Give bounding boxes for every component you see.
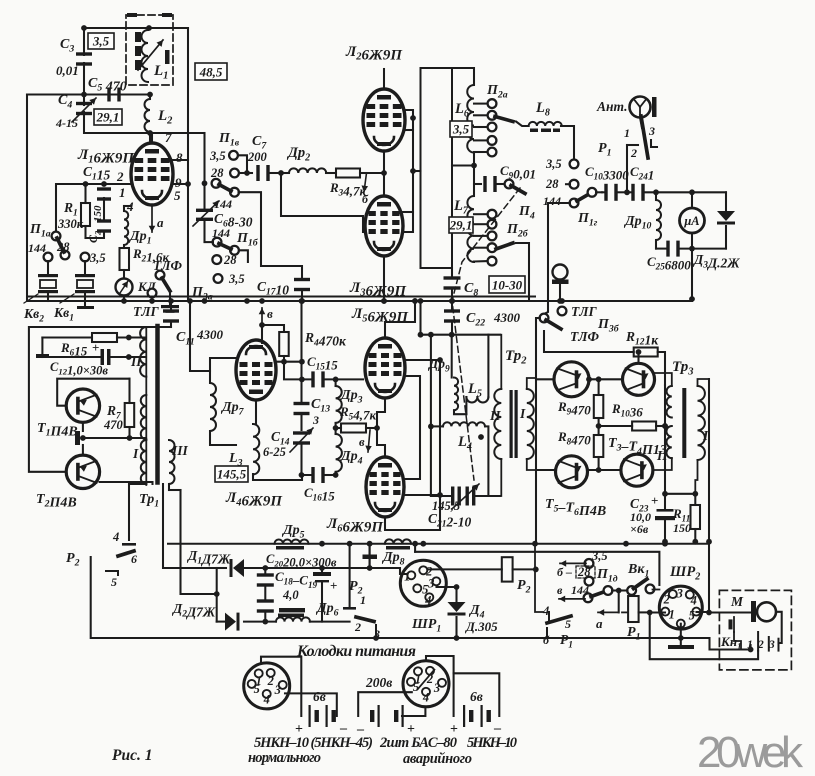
label box 29,1 L7: [449, 217, 473, 233]
tube V3 Л3 6Ж9П: [365, 196, 403, 256]
label ТЛФ: [153, 258, 183, 273]
wire V1 grid: [56, 181, 131, 232]
svg-text:5: 5: [413, 680, 419, 694]
capacitor C1: [83, 164, 111, 201]
wire Тр2 ends: [527, 378, 536, 470]
choke Др1: [124, 206, 151, 247]
transformer Тр1 winding III: [169, 440, 189, 484]
wire V5 V6 plates: [374, 298, 443, 530]
transistor T2 П4В: [36, 455, 100, 510]
transformer Тр2 winding II: [489, 389, 501, 459]
svg-text:I: I: [702, 428, 709, 443]
switch П1б lever: [202, 133, 294, 266]
inductor L2: [145, 95, 174, 144]
capacitor C12 1,0x30в: [36, 335, 146, 378]
watermark 20wek: [697, 728, 804, 776]
svg-text:4: 4: [263, 692, 270, 706]
capacitor C15 15: [307, 354, 363, 387]
tube V1 pin labels: [116, 130, 183, 214]
svg-text:20wek: 20wek: [697, 728, 804, 776]
coil L6: [454, 85, 474, 153]
label Т3-Т4 П13: [608, 436, 667, 458]
quartz Кв2: [23, 261, 58, 325]
capacitor C10 3300: [585, 164, 630, 201]
label 200в: [365, 675, 392, 690]
wire ШР1 pins: [437, 584, 460, 590]
meter uA: [680, 192, 705, 248]
coil L3: [228, 400, 302, 480]
svg-text:6-25: 6-25: [263, 445, 286, 459]
label нормального: [248, 750, 321, 766]
svg-text:Ант.: Ант.: [596, 99, 628, 114]
wire quad mid tap: [662, 385, 668, 494]
diode Д2 Д7Ж: [171, 601, 276, 631]
resistor R2 1,6к: [120, 245, 170, 278]
wire T1 emitter node: [75, 422, 146, 455]
svg-text:нормального: нормального: [248, 750, 321, 766]
label Колодки питания: [296, 643, 416, 660]
svg-text:ТЛФ: ТЛФ: [570, 329, 600, 344]
svg-text:I: I: [519, 406, 526, 421]
label 2шт БАС-80: [379, 735, 457, 751]
resistor R9 470: [557, 379, 603, 426]
transformer Тр2 core: [500, 335, 518, 496]
label Л1 6Ж9П: [77, 147, 135, 167]
svg-text:III: III: [171, 443, 189, 458]
switch П1б lower: [205, 231, 259, 286]
svg-text:7: 7: [165, 130, 172, 145]
label 3,5 switch: [81, 251, 106, 265]
svg-text:в: в: [557, 583, 563, 597]
svg-text:аварийного: аварийного: [403, 751, 472, 767]
diode Д1 Д7Ж: [186, 548, 322, 577]
resistor R3 4,7к: [326, 169, 367, 199]
capacitor C7 200: [247, 134, 284, 181]
switch П1г column: [543, 126, 602, 314]
resistor R11 150: [665, 491, 700, 545]
choke Др3: [336, 380, 363, 423]
svg-text:Рис. 1: Рис. 1: [112, 747, 152, 764]
capacitor C17 10: [257, 266, 310, 304]
choke Др4: [333, 428, 363, 478]
wire Тр2 bottom to bus: [527, 470, 536, 544]
svg-text:4300: 4300: [493, 310, 521, 325]
svg-text:1: 1: [404, 569, 410, 583]
svg-text:б: б: [543, 633, 550, 647]
svg-text:4: 4: [690, 594, 697, 608]
svg-text:0,01: 0,01: [56, 63, 79, 78]
capacitor C25 6800: [647, 241, 726, 273]
transformer Тр1 winding I: [132, 395, 146, 484]
resistor R1 330к: [57, 181, 90, 238]
svg-text:3,5: 3,5: [228, 272, 245, 286]
capacitor C16 15: [299, 467, 336, 504]
switch П1д: [557, 549, 619, 602]
wire V2 V3 interconnect: [363, 110, 421, 304]
connector colodka 2: [358, 656, 453, 716]
svg-text:Д.305: Д.305: [465, 619, 498, 634]
choke Др10: [623, 192, 661, 248]
capacitor C21 2-10 variable: [428, 484, 479, 530]
resistor R6 15: [42, 333, 146, 359]
svg-text:4300: 4300: [196, 327, 224, 342]
svg-text:3: 3: [274, 683, 281, 697]
tube V1 Л1 6Ж9П: [131, 133, 173, 205]
wire Р1 to ground bus: [650, 613, 758, 660]
svg-text:М: М: [730, 594, 744, 609]
svg-text:–: –: [356, 722, 365, 737]
label П3а: [191, 285, 213, 303]
svg-text:5: 5: [689, 609, 695, 623]
wire V4 plate row: [276, 359, 311, 382]
svg-text:Колодки питания: Колодки питания: [296, 643, 416, 660]
screen box: [421, 68, 475, 268]
svg-text:28: 28: [223, 253, 237, 267]
svg-text:2: 2: [630, 146, 637, 160]
svg-text:б: б: [362, 192, 369, 206]
svg-text:3: 3: [312, 413, 319, 427]
transistor T4: [623, 349, 655, 395]
svg-text:28: 28: [56, 240, 70, 254]
svg-text:1: 1: [624, 126, 630, 140]
capacitor C8: [444, 268, 479, 304]
key КЛ jack: [116, 279, 157, 304]
antenna jack: [596, 97, 657, 129]
svg-text:5: 5: [174, 188, 181, 203]
svg-text:3: 3: [433, 681, 440, 695]
wire T1 base: [57, 379, 129, 406]
svg-text:6в: 6в: [313, 689, 326, 704]
svg-text:II: II: [130, 354, 142, 369]
capacitor C22 4300: [444, 298, 521, 335]
node a arrow: [149, 207, 164, 232]
bus wire main: [27, 297, 692, 302]
label box 145,5: [215, 466, 248, 482]
svg-text:8: 8: [176, 150, 183, 165]
svg-text:5: 5: [254, 682, 260, 696]
label Тр2: [505, 348, 527, 367]
capacitor C11 4300: [146, 298, 224, 347]
capacitor C19: [257, 599, 305, 624]
connector wire right battery: [454, 673, 500, 716]
wire bus junctions power: [319, 541, 426, 547]
capacitor C6 variable 8-30: [193, 183, 253, 242]
svg-text:+: +: [450, 722, 458, 737]
choke Др8: [381, 539, 411, 567]
transformer Тр3 winding I: [695, 379, 709, 494]
battery 6в right: [450, 689, 502, 737]
capacitor C4 variable: [55, 93, 96, 130]
svg-text:144: 144: [543, 194, 561, 208]
svg-text:×6в: ×6в: [630, 522, 649, 536]
wire tank top rail: [418, 298, 500, 338]
bus junction dots: [202, 298, 565, 304]
switch Кн1: [720, 617, 751, 652]
svg-text:+: +: [92, 340, 99, 355]
wire T5 T6 link: [588, 467, 621, 473]
svg-text:1: 1: [669, 608, 675, 622]
svg-text:5НКН–10: 5НКН–10: [467, 735, 517, 751]
wire T2 collector: [100, 482, 153, 484]
svg-text:6: 6: [131, 552, 137, 566]
svg-text:2: 2: [354, 620, 361, 634]
svg-text:–: –: [339, 721, 348, 736]
capacitor C5: [88, 76, 127, 102]
node в arrow down mid: [359, 430, 372, 452]
svg-text:+: +: [651, 493, 658, 508]
dashed box М: [719, 590, 791, 670]
diode Д4 Д305: [448, 587, 499, 641]
transistor T1 П4В: [37, 389, 100, 440]
wire detector to bus: [689, 249, 695, 302]
switch П3б ТЛГ-ТЛФ: [536, 304, 620, 542]
wire Tr1 III to rectifier: [163, 484, 220, 622]
label Л2 6Ж9П: [345, 44, 403, 64]
ground ШР2: [668, 624, 753, 653]
switch П1а: [28, 222, 70, 261]
diode Д3 Д2Ж: [692, 192, 740, 270]
transistor T3: [536, 362, 589, 397]
inductor L1 with dashed shield: [126, 13, 173, 85]
tube V4 Л4 6Ж9П: [225, 340, 283, 510]
transformer Тр1 core: [155, 326, 160, 485]
relay contact P2 left: [66, 543, 681, 638]
svg-text:+: +: [330, 578, 337, 593]
svg-text:470: 470: [103, 418, 124, 432]
capacitor C14 6-25 variable: [263, 428, 313, 475]
choke Др5: [275, 523, 309, 550]
label 5НКН-10 (5НКН-45): [254, 735, 373, 751]
svg-text:48,5: 48,5: [199, 65, 223, 80]
resistor R8 470: [557, 426, 603, 470]
coil L8: [516, 100, 562, 132]
svg-text:29,1: 29,1: [449, 218, 473, 233]
switch П1в: [209, 131, 252, 180]
capacitor C18: [257, 565, 318, 602]
svg-text:1: 1: [119, 185, 126, 200]
label box 3,5: [88, 33, 114, 49]
svg-text:145,5: 145,5: [217, 467, 247, 482]
svg-text:10-30: 10-30: [492, 278, 523, 293]
wire C7 to V3 grid: [281, 173, 363, 216]
resistor R7 470: [103, 379, 134, 438]
node б arrow down: [362, 173, 370, 206]
bus wire power: [168, 541, 800, 547]
label Тр1: [139, 492, 159, 510]
choke Др2: [281, 145, 326, 173]
choke Др6: [276, 601, 350, 622]
capacitor C24 1: [627, 164, 726, 201]
connector colodka 1: [244, 657, 337, 716]
battery 6в left: [295, 689, 348, 737]
svg-text:144: 144: [214, 197, 232, 211]
choke Др7: [210, 358, 245, 445]
wire V1 pin8 pin9: [173, 160, 191, 187]
svg-text:5: 5: [565, 617, 571, 631]
transformer Тр3 winding II: [653, 373, 672, 470]
relay contact P1 left: [535, 544, 573, 651]
resistor R12 1к: [544, 329, 665, 385]
label box 48,5: [195, 63, 227, 80]
tube V5 Л5 6Ж9П: [351, 306, 409, 398]
wire Tr1 I bottom to P2: [112, 484, 146, 544]
choke Др9: [427, 335, 466, 415]
svg-text:б –: б –: [557, 565, 572, 579]
svg-text:в: в: [267, 306, 273, 321]
wire top-left loop: [27, 25, 204, 301]
svg-text:4: 4: [112, 530, 119, 544]
svg-text:144: 144: [28, 241, 46, 255]
capacitor C23 10,0x6в: [630, 491, 675, 545]
label Л3 6Ж9П: [349, 280, 407, 300]
label Рис. 1: [112, 747, 152, 764]
svg-text:3,5: 3,5: [92, 34, 110, 49]
switch П2б taps: [474, 210, 529, 301]
wire tank bottom rail: [431, 335, 500, 496]
svg-text:330к: 330к: [57, 217, 84, 231]
label аварийного: [403, 751, 472, 767]
resistor R4 470к: [262, 325, 347, 365]
label 5НКН-10 right: [467, 735, 517, 751]
wire Тр3 right: [706, 379, 712, 613]
svg-text:150: 150: [92, 205, 104, 222]
transistor T6: [621, 448, 668, 486]
transformer Тр2 winding I: [519, 389, 534, 459]
switch Вк1: [616, 562, 660, 595]
svg-text:150: 150: [673, 521, 691, 535]
svg-text:28: 28: [545, 177, 559, 191]
transformer Тр3 core: [682, 388, 686, 458]
connector ШР1: [400, 560, 446, 634]
svg-text:в: в: [359, 435, 365, 449]
wire V2 top cap: [383, 69, 385, 89]
switch P1 positions: [598, 116, 657, 192]
label box 3,5 L6: [450, 121, 472, 137]
wire T3 T4 link: [586, 376, 622, 382]
label box 29,1: [94, 109, 122, 125]
svg-text:ТЛГ: ТЛГ: [133, 304, 160, 319]
capacitor C3: [56, 37, 92, 78]
jack symbol on bus: [552, 265, 569, 304]
quartz Кв1: [24, 261, 95, 324]
label Т5-Т6 П4В: [545, 497, 606, 519]
svg-text:1: 1: [360, 593, 366, 607]
resistor R10 36: [596, 401, 668, 431]
node в arrow up: [259, 306, 273, 343]
svg-text:3,5: 3,5: [209, 149, 226, 163]
svg-text:а: а: [596, 616, 603, 631]
svg-text:2: 2: [116, 169, 124, 184]
svg-text:3,5: 3,5: [89, 251, 106, 265]
resistor R5 4,7к: [333, 404, 377, 433]
label box 10-30: [489, 276, 525, 293]
wire rectifier rail: [322, 544, 407, 574]
svg-text:μА: μА: [683, 214, 699, 228]
capacitor C20 20,0x300в: [266, 552, 337, 622]
coil L7: [452, 153, 477, 263]
amp block frame: [29, 298, 210, 472]
svg-text:5НКН–10 (5НКН–45): 5НКН–10 (5НКН–45): [254, 735, 373, 751]
capacitor C2 150: [86, 198, 112, 243]
svg-text:4,0: 4,0: [282, 588, 299, 602]
svg-text:II: II: [489, 408, 501, 423]
motor М: [730, 594, 782, 643]
svg-text:2шт БАС–80: 2шт БАС–80: [379, 735, 457, 751]
svg-text:а: а: [157, 215, 164, 230]
relay coil Р2: [428, 544, 539, 596]
tube V2 Л2 6Ж9П: [363, 89, 405, 151]
svg-text:2: 2: [267, 674, 274, 688]
coil L5: [466, 335, 488, 415]
relay contact P2 right: [343, 544, 380, 641]
svg-text:29,1: 29,1: [96, 110, 120, 125]
svg-text:2: 2: [663, 593, 670, 607]
transistor T5: [536, 456, 588, 488]
switch П2а taps: [474, 83, 513, 156]
svg-text:200в: 200в: [365, 675, 392, 690]
svg-text:4-15: 4-15: [55, 116, 78, 130]
switch ТЛГ jack: [133, 271, 179, 319]
capacitor C9 0,01: [474, 163, 536, 222]
svg-text:200: 200: [247, 150, 268, 164]
svg-text:6в: 6в: [470, 689, 483, 704]
svg-text:4: 4: [422, 690, 429, 704]
svg-text:ТЛГ: ТЛГ: [571, 304, 598, 319]
relay coil Р1: [596, 591, 650, 643]
wire T4 T6 collectors to Тр3: [655, 365, 672, 379]
coil L4: [428, 335, 488, 496]
connector ШР2: [647, 564, 751, 629]
svg-text:3: 3: [676, 587, 683, 601]
transformer Тр1 winding II: [130, 327, 146, 485]
dashed gang line: [452, 188, 520, 480]
label Тр3: [672, 359, 694, 378]
svg-text:I: I: [132, 446, 139, 461]
svg-text:4: 4: [424, 593, 431, 607]
svg-text:3,5: 3,5: [452, 122, 470, 137]
capacitor C13: [294, 298, 331, 430]
terminals 1 2 3: [747, 632, 779, 651]
label I Тр3: [702, 428, 709, 443]
svg-text:3,5: 3,5: [545, 157, 562, 171]
svg-text:–: –: [493, 721, 502, 736]
battery 200в: [356, 705, 415, 737]
wire power rail 2: [412, 541, 659, 585]
svg-text:5: 5: [111, 575, 117, 589]
svg-text:3: 3: [648, 124, 655, 138]
tube V6 Л6 6Ж9П: [326, 457, 404, 536]
